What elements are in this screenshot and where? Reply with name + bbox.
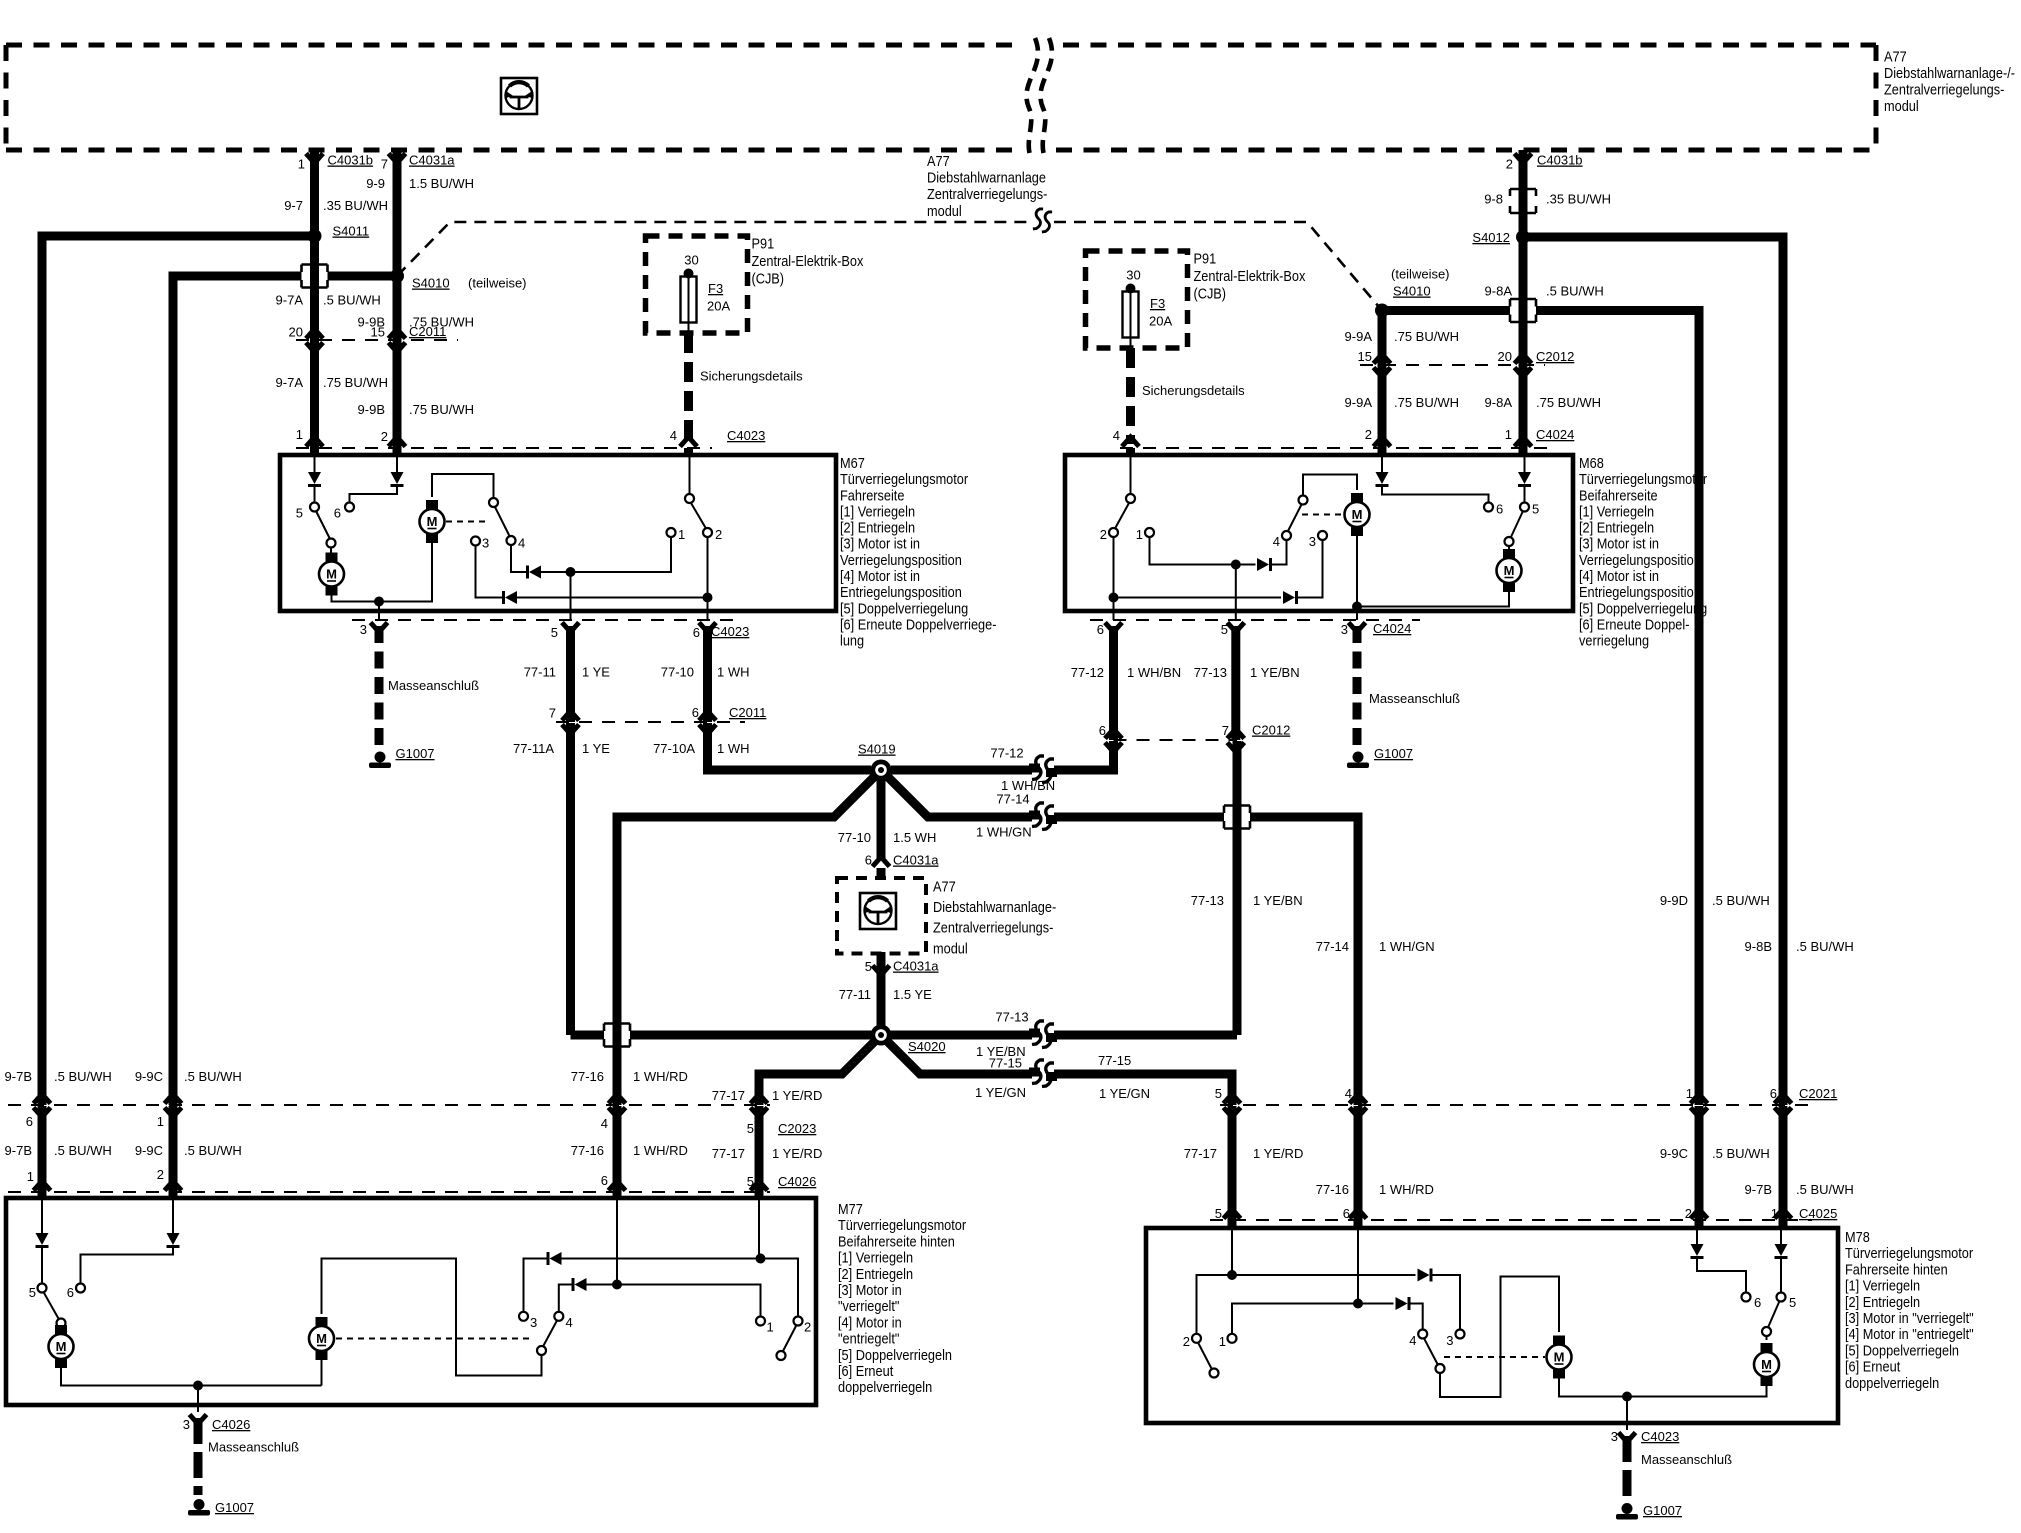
M67 switch contact 5 <box>310 503 319 512</box>
crossover (no connection) on wire 9-7A <box>302 265 328 288</box>
svg-text:77-15: 77-15 <box>989 1056 1022 1071</box>
wire 77-17 from S4020 down-left <box>759 1040 876 1105</box>
svg-text:6: 6 <box>1097 622 1104 637</box>
svg-text:S4012: S4012 <box>1472 230 1510 245</box>
M78 pin 3 connector and ground <box>1619 1433 1636 1443</box>
svg-text:3: 3 <box>1611 1429 1618 1444</box>
svg-text:9-7A: 9-7A <box>276 293 304 308</box>
svg-text:C4025: C4025 <box>1799 1206 1837 1221</box>
svg-text:4: 4 <box>601 1116 608 1131</box>
svg-text:1: 1 <box>298 157 305 172</box>
svg-text:5: 5 <box>296 506 303 521</box>
svg-text:1 YE/GN: 1 YE/GN <box>975 1085 1026 1100</box>
M68 switch pivot at pin 4 <box>1130 457 1132 494</box>
wire 77-10A 1 WH down to splice S4019 <box>708 723 872 770</box>
connector C2021 <box>1220 1104 1810 1106</box>
svg-text:77-16: 77-16 <box>571 1143 604 1158</box>
svg-text:5: 5 <box>1789 1295 1796 1310</box>
svg-text:1 YE/BN: 1 YE/BN <box>1250 665 1300 680</box>
svg-text:C2021: C2021 <box>1799 1086 1837 1101</box>
svg-text:9-9A: 9-9A <box>1345 329 1373 344</box>
svg-text:6: 6 <box>1770 1086 1777 1101</box>
svg-text:C4023: C4023 <box>727 428 765 443</box>
svg-text:2: 2 <box>1685 1206 1692 1221</box>
svg-text:A77: A77 <box>1884 47 1907 64</box>
svg-text:1.5 YE: 1.5 YE <box>893 987 932 1002</box>
splice S4010 (teilweise) left <box>390 269 404 283</box>
svg-text:[1] Verriegeln: [1] Verriegeln <box>1845 1277 1920 1294</box>
svg-text:[4] Motor ist in: [4] Motor ist in <box>1579 567 1659 584</box>
svg-text:A77: A77 <box>927 152 950 169</box>
svg-text:A77: A77 <box>933 877 956 894</box>
svg-text:5: 5 <box>747 1174 754 1189</box>
M68 wire pin6 through diode to contact 3 <box>1113 537 1115 620</box>
svg-text:5: 5 <box>1215 1086 1222 1101</box>
M67 diode at pin 1 <box>314 457 316 472</box>
svg-text:77-11A: 77-11A <box>513 741 554 756</box>
svg-text:1: 1 <box>157 1114 164 1129</box>
svg-text:15: 15 <box>371 325 385 340</box>
svg-text:.75 BU/WH: .75 BU/WH <box>1536 395 1601 410</box>
svg-text:C4031a: C4031a <box>893 959 939 974</box>
svg-text:G1007: G1007 <box>1643 1503 1682 1518</box>
svg-text:[2] Entriegeln: [2] Entriegeln <box>1845 1293 1920 1310</box>
M67 pin 5 junction <box>566 567 576 577</box>
svg-text:C4031a: C4031a <box>893 853 939 868</box>
svg-text:C4031b: C4031b <box>1537 153 1583 168</box>
crossover (no connection) wire 1 YE over 77-16 <box>604 1024 630 1047</box>
svg-text:1 WH/RD: 1 WH/RD <box>633 1069 688 1084</box>
svg-text:4: 4 <box>670 428 677 443</box>
svg-text:C4031a: C4031a <box>409 153 455 168</box>
svg-text:2: 2 <box>1365 427 1372 442</box>
svg-text:G1007: G1007 <box>1374 746 1413 761</box>
fuse box P91 Zentral-Elektrik-Box (CJB) right <box>1086 251 1188 348</box>
motor unit M68 box <box>1065 455 1573 611</box>
splice S4020 <box>871 1025 892 1046</box>
svg-text:1: 1 <box>1219 1334 1226 1349</box>
svg-text:.5 BU/WH: .5 BU/WH <box>1546 284 1604 299</box>
svg-text:77-13: 77-13 <box>995 1010 1028 1025</box>
M77 switch contact 3 <box>519 1312 528 1321</box>
svg-text:2: 2 <box>157 1167 164 1182</box>
M77 switch blade 5 <box>44 1292 60 1320</box>
wire 9-8A to C4024 <box>1519 365 1528 448</box>
svg-text:7: 7 <box>381 157 388 172</box>
wires through C2023 to C4026 <box>38 1106 47 1192</box>
svg-text:Fahrerseite hinten: Fahrerseite hinten <box>1845 1260 1948 1277</box>
M67 switch pivot above contact 4 <box>489 498 498 507</box>
svg-text:4: 4 <box>518 536 525 551</box>
label M68 description <box>1579 454 1707 649</box>
motor unit M77 box <box>6 1198 816 1405</box>
M68 diode to contact 4 <box>1236 564 1256 566</box>
svg-text:Masseanschluß: Masseanschluß <box>1641 1452 1732 1467</box>
svg-text:Sicherungsdetails: Sicherungsdetails <box>700 369 803 384</box>
M67 switch blade 5 <box>316 511 330 539</box>
svg-text:1: 1 <box>678 527 685 542</box>
M78 diode at pin 1 <box>1780 1230 1782 1244</box>
svg-text:[4] Motor in "entriegelt": [4] Motor in "entriegelt" <box>1845 1325 1974 1342</box>
svg-text:[3] Motor ist in: [3] Motor ist in <box>1579 535 1659 552</box>
wire 77-11A 1 YE down to S4020 row <box>566 723 575 1035</box>
svg-text:5: 5 <box>29 1285 36 1300</box>
M67 motor 1 (lock actuator left) <box>330 548 332 554</box>
fuse box P91 Zentral-Elektrik-Box (CJB) left <box>646 236 748 333</box>
svg-text:Diebstahlwarnanlage: Diebstahlwarnanlage <box>927 169 1046 186</box>
svg-text:15: 15 <box>1358 349 1372 364</box>
svg-text:6: 6 <box>1754 1295 1761 1310</box>
M78 motor 6 (right) <box>1627 1386 1767 1397</box>
steering wheel icon (A77 top) <box>501 78 537 114</box>
M67 switch pivot at pin 4 <box>689 457 691 494</box>
splice S4010 (teilweise) right and wire to right drop <box>1382 306 1510 315</box>
svg-text:F3: F3 <box>708 281 723 296</box>
svg-text:1.5 WH: 1.5 WH <box>893 830 936 845</box>
svg-text:[3] Motor in: [3] Motor in <box>838 1281 902 1298</box>
wire 1 YE from M67 pin5 into S4020 <box>571 1031 606 1040</box>
M78 motor 5 (middle) <box>1553 1336 1565 1345</box>
M77 switch blade 2 (open) <box>783 1325 797 1352</box>
svg-text:77-11: 77-11 <box>524 665 556 680</box>
M78 switch contact 1 <box>1228 1334 1237 1343</box>
svg-text:6: 6 <box>1343 1206 1350 1221</box>
svg-text:5: 5 <box>865 959 872 974</box>
M68 switch blade 5 <box>1511 511 1524 538</box>
M67 wire contact3 to diode to pin6 <box>476 546 504 598</box>
svg-text:[2] Entriegeln: [2] Entriegeln <box>1579 519 1654 536</box>
svg-text:9-9B: 9-9B <box>358 402 385 417</box>
M77 switch blade-end contact <box>537 1346 546 1355</box>
connector C2012 (lower) <box>1114 739 1238 741</box>
M68 pin 5 junction <box>1231 560 1241 570</box>
svg-text:[3] Motor in "verriegelt": [3] Motor in "verriegelt" <box>1845 1309 1974 1326</box>
connector C2011 (upper) <box>296 339 458 341</box>
svg-text:6: 6 <box>67 1285 74 1300</box>
svg-text:[2] Entriegeln: [2] Entriegeln <box>840 519 915 536</box>
svg-text:lung: lung <box>840 632 864 649</box>
svg-text:9-7A: 9-7A <box>276 375 304 390</box>
svg-text:3: 3 <box>1341 622 1348 637</box>
wire 77-11 1 YE (M67 pin5) <box>566 626 575 722</box>
svg-text:3: 3 <box>1446 1333 1453 1348</box>
M67 motor 2 (middle) <box>426 500 438 509</box>
M68 switch contact 5 <box>1520 503 1529 512</box>
svg-text:.5 BU/WH: .5 BU/WH <box>1712 1146 1770 1161</box>
connector C4025 (top of M78) <box>1210 1219 1812 1221</box>
steering wheel icon (A77 middle) <box>860 893 896 929</box>
M67 pin 3 connector arrow <box>371 623 388 633</box>
svg-text:6: 6 <box>334 506 341 521</box>
svg-text:77-17: 77-17 <box>712 1146 745 1161</box>
svg-text:4: 4 <box>1113 428 1120 443</box>
ground G1007 (below M78) <box>1622 1503 1633 1514</box>
wire C4031b pin 1 (9-7 .35 BU/WH) <box>310 150 319 340</box>
svg-text:3: 3 <box>360 622 367 637</box>
M67 pin 6 connector arrow <box>699 623 716 633</box>
M77 diode at pin 2 <box>172 1200 174 1233</box>
svg-text:"verriegelt": "verriegelt" <box>838 1297 899 1314</box>
M67 diode at pin 2 <box>396 457 398 472</box>
svg-text:Masseanschluß: Masseanschluß <box>208 1440 299 1455</box>
svg-text:77-16: 77-16 <box>571 1069 604 1084</box>
M68 motor 4 (right) <box>1508 546 1510 551</box>
svg-text:Zentralverriegelungs-: Zentralverriegelungs- <box>933 919 1054 936</box>
label A77 (top right) <box>1884 47 2015 114</box>
svg-text:.35 BU/WH: .35 BU/WH <box>323 198 388 213</box>
svg-text:1: 1 <box>1136 527 1143 542</box>
ground G1007 (below M68) <box>1353 752 1364 763</box>
break symbol in A77 box outline <box>1026 38 1038 158</box>
M68 wire contact1 to pin5 node <box>1150 537 1236 565</box>
M78 switch contact 3 <box>1456 1330 1465 1339</box>
M67 mechanical link (dashed) <box>446 521 487 523</box>
M78 switch blade 2 (open) <box>1198 1343 1212 1370</box>
svg-text:Entriegelungsposition: Entriegelungsposition <box>840 583 962 600</box>
fuse feed wire (Sicherungsdetails, right) <box>1130 337 1132 348</box>
svg-text:77-17: 77-17 <box>1184 1146 1217 1161</box>
svg-text:9-9C: 9-9C <box>135 1143 163 1158</box>
svg-text:.5 BU/WH: .5 BU/WH <box>54 1069 112 1084</box>
wire 77-16 from S4019 down-left <box>617 775 876 1105</box>
svg-text:M67: M67 <box>840 454 865 471</box>
svg-text:M: M <box>1554 1350 1565 1365</box>
label P91 (right) <box>1194 249 1306 301</box>
svg-text:1 YE/RD: 1 YE/RD <box>1253 1146 1303 1161</box>
M68 switch contact 3 <box>1318 531 1327 540</box>
svg-text:20A: 20A <box>707 299 730 314</box>
M77 switch contact 6 <box>76 1284 85 1293</box>
svg-text:1: 1 <box>1686 1086 1693 1101</box>
svg-text:[1] Verriegeln: [1] Verriegeln <box>838 1249 913 1266</box>
svg-text:C4023: C4023 <box>1641 1429 1679 1444</box>
svg-text:20: 20 <box>1498 349 1512 364</box>
svg-text:(teilweise): (teilweise) <box>1391 267 1450 282</box>
svg-text:Türverriegelungsmotor: Türverriegelungsmotor <box>1845 1244 1973 1261</box>
svg-text:77-11: 77-11 <box>839 987 871 1002</box>
connector C4023 (bottom of M67) <box>352 619 742 621</box>
svg-text:4: 4 <box>566 1315 573 1330</box>
svg-text:9-7B: 9-7B <box>5 1069 32 1084</box>
M78 pin 3 junction <box>1622 1392 1632 1402</box>
svg-text:M78: M78 <box>1845 1228 1870 1245</box>
ground wire from M68 pin 3 (Masseanschluss) <box>1353 626 1362 748</box>
svg-text:M68: M68 <box>1579 454 1604 471</box>
svg-text:1 WH/GN: 1 WH/GN <box>1379 939 1435 954</box>
svg-text:M: M <box>1352 507 1363 522</box>
svg-text:77-13: 77-13 <box>1194 665 1227 680</box>
svg-text:6: 6 <box>26 1114 33 1129</box>
M78 mechanical link (dashed) <box>1444 1356 1545 1358</box>
svg-text:[2] Entriegeln: [2] Entriegeln <box>838 1265 913 1282</box>
svg-text:1 WH/BN: 1 WH/BN <box>1127 665 1181 680</box>
svg-text:1 YE/BN: 1 YE/BN <box>1253 893 1303 908</box>
svg-text:[6] Erneute Doppelverriege-: [6] Erneute Doppelverriege- <box>840 615 997 632</box>
svg-text:Sicherungsdetails: Sicherungsdetails <box>1142 383 1245 398</box>
connector C4026 (top of M77) <box>8 1191 770 1193</box>
svg-text:2: 2 <box>804 1320 811 1335</box>
svg-text:Verriegelungsposition: Verriegelungsposition <box>1579 551 1701 568</box>
svg-text:6: 6 <box>601 1173 608 1188</box>
svg-text:5: 5 <box>551 625 558 640</box>
M78 row2: contact1 wire, pin6 junction, diode, to contact 4 <box>1232 1304 1394 1334</box>
M67 switch contact 4 <box>507 536 516 545</box>
svg-text:.75 BU/WH: .75 BU/WH <box>323 375 388 390</box>
inline symbol on wire 9-8 <box>1510 189 1536 213</box>
splice S4019 wires <box>891 741 1114 770</box>
ground wire from M67 pin 3 (Masseanschluss) <box>375 626 384 748</box>
svg-text:77-10A: 77-10A <box>653 741 695 756</box>
label A77 (middle) <box>933 877 1057 956</box>
svg-text:1.5 BU/WH: 1.5 BU/WH <box>409 176 474 191</box>
motor unit M78 box <box>1146 1228 1838 1423</box>
label A77 (top middle) <box>927 152 1048 219</box>
wire 77-10 1 WH (M67 pin6) <box>703 626 712 722</box>
svg-text:G1007: G1007 <box>396 746 435 761</box>
svg-text:doppelverriegeln: doppelverriegeln <box>1845 1374 1939 1391</box>
svg-text:Zentral-Elektrik-Box: Zentral-Elektrik-Box <box>1194 267 1306 284</box>
svg-text:M77: M77 <box>838 1200 863 1217</box>
svg-text:Diebstahlwarnanlage-/-: Diebstahlwarnanlage-/- <box>1884 64 2015 81</box>
svg-text:[5] Doppelverriegeln: [5] Doppelverriegeln <box>1845 1341 1959 1358</box>
splice S4012 and wire to right drop <box>1523 237 1783 1105</box>
svg-text:[6] Erneut: [6] Erneut <box>1845 1358 1900 1375</box>
svg-text:1 YE/RD: 1 YE/RD <box>772 1088 822 1103</box>
svg-text:30: 30 <box>1126 268 1140 283</box>
svg-text:77-10: 77-10 <box>838 830 871 845</box>
svg-text:Zentral-Elektrik-Box: Zentral-Elektrik-Box <box>752 252 864 269</box>
svg-text:4: 4 <box>1409 1333 1416 1348</box>
svg-text:7: 7 <box>549 706 556 721</box>
svg-text:7: 7 <box>1222 723 1229 738</box>
svg-text:9-8B: 9-8B <box>1745 939 1772 954</box>
svg-text:1 WH: 1 WH <box>717 741 750 756</box>
svg-text:[5] Doppelverriegelung: [5] Doppelverriegelung <box>840 599 968 616</box>
svg-text:.5 BU/WH: .5 BU/WH <box>1796 1182 1854 1197</box>
M78 switch contact 5 <box>1777 1293 1786 1302</box>
M77 switch contact 2 <box>794 1317 803 1326</box>
svg-text:C4024: C4024 <box>1536 427 1574 442</box>
M68 switch contact 2 <box>1109 528 1118 537</box>
svg-text:6: 6 <box>1099 723 1106 738</box>
M77 row to contact 4: diode and wire to contact 1 <box>559 1285 573 1312</box>
svg-text:9-7B: 9-7B <box>1745 1182 1772 1197</box>
svg-text:9-9C: 9-9C <box>1660 1146 1688 1161</box>
svg-text:6: 6 <box>692 705 699 720</box>
svg-text:1 WH: 1 WH <box>717 665 750 680</box>
svg-text:4: 4 <box>1345 1086 1352 1101</box>
M77 switch contact 5 <box>38 1284 47 1293</box>
svg-text:Zentralverriegelungs-: Zentralverriegelungs- <box>1884 80 2005 97</box>
M68 switch contact 4 <box>1282 531 1291 540</box>
svg-text:9-9D: 9-9D <box>1660 893 1688 908</box>
svg-text:9-9A: 9-9A <box>1345 395 1373 410</box>
connector C4031a pin 5 below module <box>877 952 886 1035</box>
svg-text:C2011: C2011 <box>729 705 766 720</box>
svg-text:77-13: 77-13 <box>1191 893 1224 908</box>
M78 pin 6 wire and junction <box>1357 1230 1359 1304</box>
svg-text:9-8A: 9-8A <box>1485 284 1513 299</box>
M77 diode at pin 1 <box>41 1200 43 1233</box>
svg-text:Fahrerseite: Fahrerseite <box>840 486 905 503</box>
svg-text:77-15: 77-15 <box>1098 1053 1131 1068</box>
svg-text:1 YE/GN: 1 YE/GN <box>1099 1086 1150 1101</box>
svg-text:2: 2 <box>1100 527 1107 542</box>
svg-text:.75 BU/WH: .75 BU/WH <box>1394 395 1459 410</box>
svg-text:5: 5 <box>747 1121 754 1136</box>
svg-text:.5 BU/WH: .5 BU/WH <box>184 1069 242 1084</box>
svg-text:2: 2 <box>1506 157 1513 172</box>
wire from splice S4011 to left drop <box>42 236 315 1105</box>
svg-text:3: 3 <box>183 1417 190 1432</box>
M77 pin 6 junction <box>616 1200 618 1285</box>
svg-text:modul: modul <box>927 202 962 219</box>
svg-text:P91: P91 <box>1194 249 1217 266</box>
svg-text:Diebstahlwarnanlage-: Diebstahlwarnanlage- <box>933 898 1057 915</box>
svg-text:1 YE: 1 YE <box>582 741 610 756</box>
svg-text:C4023: C4023 <box>711 624 749 639</box>
svg-text:9-8: 9-8 <box>1484 192 1503 207</box>
svg-text:6: 6 <box>693 625 700 640</box>
svg-text:9-8A: 9-8A <box>1485 395 1513 410</box>
svg-text:.5 BU/WH: .5 BU/WH <box>184 1143 242 1158</box>
M78 switch blade 5 <box>1768 1301 1780 1328</box>
svg-text:20A: 20A <box>1149 314 1172 329</box>
svg-text:C4024: C4024 <box>1373 621 1411 636</box>
svg-text:C2023: C2023 <box>778 1121 816 1136</box>
connector C4023 (top of M67) <box>296 447 712 449</box>
connector C2023 <box>8 1104 770 1106</box>
svg-text:Beifahrerseite hinten: Beifahrerseite hinten <box>838 1232 955 1249</box>
svg-text:3: 3 <box>1309 534 1316 549</box>
M68 motor 3 (middle) <box>1351 493 1363 502</box>
connector C4024 (top of M68) <box>1120 447 1548 449</box>
svg-text:[5] Doppelverriegelung: [5] Doppelverriegelung <box>1579 599 1707 616</box>
svg-text:Türverriegelungsmotor: Türverriegelungsmotor <box>840 470 968 487</box>
wire 77-13 from S4020 to the right <box>881 1031 1237 1040</box>
M68 switch contact 6 <box>1484 503 1493 512</box>
connector C4024 (bottom of M68) <box>1090 619 1420 621</box>
svg-text:M: M <box>427 514 438 529</box>
M67 switch contact 1 <box>667 528 676 537</box>
svg-text:6: 6 <box>1496 502 1503 517</box>
label P91 (left) <box>752 234 864 286</box>
wire 9-9A .75 BU/WH to C2012 <box>1378 311 1387 366</box>
M67 switch contact 6 <box>345 503 354 512</box>
svg-text:1: 1 <box>1505 427 1512 442</box>
svg-text:(teilweise): (teilweise) <box>468 276 527 291</box>
svg-text:77-12: 77-12 <box>990 746 1023 761</box>
ground G1007 (below M67) <box>375 752 386 763</box>
M78 row1: contact2 wire, diode, to contact 3 <box>1197 1275 1416 1334</box>
wire 77-13 1 YE/BN (M68 pin 5) <box>1231 626 1240 740</box>
wire 9-7A .75 BU/WH to C4023 <box>310 340 319 448</box>
svg-text:Türverriegelungsmotor: Türverriegelungsmotor <box>838 1216 966 1233</box>
svg-text:[6] Erneut: [6] Erneut <box>838 1362 893 1379</box>
svg-text:.75 BU/WH: .75 BU/WH <box>1394 329 1459 344</box>
svg-text:77-12: 77-12 <box>1071 665 1104 680</box>
M67 wire contact4 to diode to pin5 node <box>511 545 528 572</box>
svg-text:verriegelung: verriegelung <box>1579 632 1649 649</box>
svg-text:[4] Motor ist in: [4] Motor ist in <box>840 567 920 584</box>
svg-text:C2012: C2012 <box>1252 723 1290 738</box>
svg-text:modul: modul <box>933 939 968 956</box>
dashed link wire of splice S4010 (teilweise) <box>397 222 1030 276</box>
svg-text:Masseanschluß: Masseanschluß <box>1369 691 1460 706</box>
svg-text:[3] Motor ist in: [3] Motor ist in <box>840 535 920 552</box>
svg-text:Entriegelungsposition: Entriegelungsposition <box>1579 583 1701 600</box>
wire 77-12 break symbol <box>1034 762 1052 779</box>
